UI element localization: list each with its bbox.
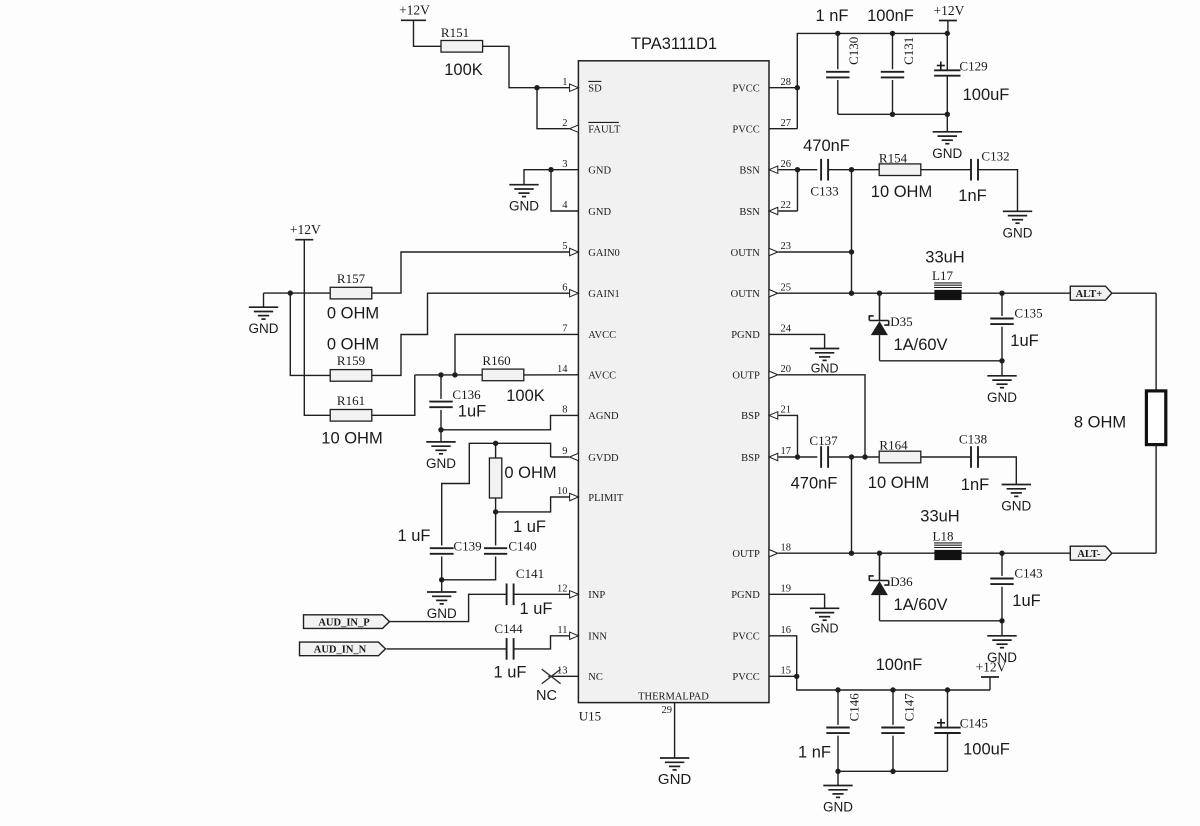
wire down to OUTP row bbox=[851, 457, 853, 553]
wire to ground symbol bbox=[524, 170, 551, 185]
resistor 8 OHM load bbox=[1146, 391, 1165, 445]
wire C130 top stem bbox=[837, 33, 839, 69]
svg-text:ALT+: ALT+ bbox=[1076, 289, 1103, 300]
resistor R159 bbox=[330, 370, 372, 382]
junction C146 top bbox=[835, 687, 840, 692]
ground (thermal pad) bbox=[660, 758, 689, 770]
op-amp U15 TPA3111D1 IC body bbox=[578, 61, 769, 703]
capacitor C146 bbox=[826, 728, 849, 734]
pin 8 AGND bbox=[562, 405, 619, 423]
svg-text:+12V: +12V bbox=[933, 3, 964, 18]
wire to gnd bbox=[946, 114, 948, 132]
flag AUD_IN_N bbox=[300, 642, 386, 656]
junction D35 bbox=[877, 291, 882, 296]
wire to pin 2 bbox=[537, 88, 570, 129]
pin 29 THERMALPAD stem bbox=[662, 703, 675, 758]
svg-text:33uH: 33uH bbox=[925, 249, 964, 267]
wire load to ALT- bbox=[1155, 445, 1157, 554]
svg-text:1 nF: 1 nF bbox=[798, 744, 831, 762]
junction D36 bbox=[877, 551, 882, 556]
wire C147 top stem bbox=[892, 690, 894, 725]
wire to pin 1 bbox=[537, 87, 570, 89]
wire +12V stub bbox=[947, 21, 949, 34]
svg-text:20: 20 bbox=[781, 364, 792, 375]
wire pin 28 bbox=[769, 87, 797, 89]
wire +12V stub bottom bbox=[989, 677, 991, 690]
wire pin 17 to C137 bbox=[778, 456, 817, 458]
svg-text:C138: C138 bbox=[959, 432, 987, 447]
svg-text:470nF: 470nF bbox=[803, 137, 850, 155]
svg-text:10 OHM: 10 OHM bbox=[868, 474, 929, 492]
pin 20 OUTP bbox=[732, 364, 791, 382]
capacitor C130 bbox=[826, 72, 849, 78]
wire pin 9 stub bbox=[551, 456, 570, 458]
capacitor C133 bbox=[821, 159, 828, 181]
junction C131 bottom bbox=[890, 112, 895, 117]
wire R160 to pin 14 bbox=[524, 374, 579, 376]
wire AUD_IN_P to C141 bbox=[390, 594, 507, 621]
svg-text:+12V: +12V bbox=[976, 659, 1007, 674]
svg-text:D35: D35 bbox=[890, 314, 912, 329]
wire pin 15 bbox=[769, 675, 797, 677]
svg-text:GND: GND bbox=[1003, 225, 1033, 240]
svg-text:GND: GND bbox=[249, 321, 279, 336]
wire 0-ohm top stem bbox=[495, 443, 497, 458]
svg-text:18: 18 bbox=[781, 542, 792, 553]
pin 16 PVCC bbox=[732, 625, 791, 643]
svg-text:1uF: 1uF bbox=[1010, 332, 1038, 350]
svg-text:R160: R160 bbox=[482, 353, 510, 368]
ground (pin 19) bbox=[810, 608, 839, 620]
svg-text:BSN: BSN bbox=[739, 207, 760, 218]
wire pin 18 OUTP output line bbox=[778, 552, 1156, 554]
svg-text:AUD_IN_P: AUD_IN_P bbox=[318, 617, 370, 628]
wire 0-ohm bottom stem bbox=[495, 498, 497, 512]
wire BSN vertical bbox=[797, 170, 799, 211]
ground (C135) bbox=[987, 376, 1016, 388]
wire C129 bottom stem bbox=[946, 76, 948, 115]
svg-text:PGND: PGND bbox=[731, 590, 760, 601]
svg-text:AVCC: AVCC bbox=[588, 330, 616, 341]
svg-text:GND: GND bbox=[823, 800, 853, 815]
svg-text:U15: U15 bbox=[579, 708, 601, 723]
junction pin 28 bbox=[795, 85, 800, 90]
resistor R157 bbox=[330, 287, 372, 299]
junction pin 15/16 bbox=[794, 674, 799, 679]
svg-text:GAIN1: GAIN1 bbox=[588, 289, 620, 300]
junction C133/R154/OUTN bbox=[849, 167, 854, 172]
junction pin20 branch bbox=[862, 454, 867, 459]
wire down to R159 bbox=[290, 293, 330, 375]
ground (pin 24) bbox=[810, 349, 839, 361]
svg-text:AUD_IN_N: AUD_IN_N bbox=[314, 645, 367, 656]
wire C145 bottom stem bbox=[947, 733, 949, 771]
pin 23 OUTN bbox=[731, 241, 791, 259]
svg-text:ALT-: ALT- bbox=[1077, 549, 1101, 560]
wire R159 to pin 6 GAIN1 bbox=[372, 293, 570, 375]
junction C143 bottom bbox=[999, 618, 1004, 623]
wire +12V to R151 bbox=[414, 20, 442, 46]
svg-text:C141: C141 bbox=[516, 566, 544, 581]
svg-text:AVCC: AVCC bbox=[588, 371, 616, 382]
svg-text:GND: GND bbox=[427, 606, 457, 621]
svg-text:R154: R154 bbox=[879, 151, 908, 166]
junction C147 top bbox=[890, 687, 895, 692]
svg-text:8 OHM: 8 OHM bbox=[1074, 414, 1126, 432]
junction C143 top bbox=[999, 551, 1004, 556]
svg-text:6: 6 bbox=[562, 282, 567, 293]
wire pin 13 NC stub bbox=[548, 675, 578, 677]
pin 9 GVDD bbox=[562, 446, 619, 464]
svg-text:1nF: 1nF bbox=[958, 187, 986, 205]
svg-text:BSP: BSP bbox=[741, 453, 760, 464]
wire ALT+ to load bbox=[1155, 293, 1157, 391]
svg-text:OUTP: OUTP bbox=[732, 549, 760, 560]
wire bottom gnd rail bbox=[838, 770, 948, 772]
svg-text:25: 25 bbox=[781, 282, 792, 293]
flag ALT- bbox=[1070, 546, 1112, 560]
+12V supply (PVCC bottom) bbox=[981, 676, 999, 678]
svg-text:17: 17 bbox=[781, 446, 792, 457]
capacitor C129 (polarized) bbox=[934, 70, 960, 75]
pin 21 BSP bbox=[741, 405, 791, 423]
svg-text:PVCC: PVCC bbox=[732, 632, 759, 643]
wire pin 26 to C133 bbox=[778, 169, 817, 171]
svg-text:21: 21 bbox=[781, 405, 792, 416]
svg-text:L17: L17 bbox=[932, 268, 953, 283]
svg-text:C129: C129 bbox=[959, 59, 987, 74]
svg-text:FAULT: FAULT bbox=[588, 125, 621, 136]
svg-text:+12V: +12V bbox=[399, 3, 430, 18]
wire +12V down to R161 bbox=[304, 240, 330, 416]
junction C136 top bbox=[438, 372, 443, 377]
resistor R154 bbox=[879, 164, 921, 176]
svg-text:BSN: BSN bbox=[739, 166, 760, 177]
junction pins 3/4 bbox=[548, 167, 553, 172]
pin 27 PVCC bbox=[732, 118, 791, 136]
svg-text:1A/60V: 1A/60V bbox=[893, 336, 947, 354]
svg-text:OUTP: OUTP bbox=[732, 371, 760, 382]
wire pin 24 PGND bbox=[769, 334, 825, 348]
wire R164 to C138 bbox=[921, 456, 971, 458]
ground (C143) bbox=[987, 636, 1016, 648]
wire R154 to C132 bbox=[921, 169, 971, 171]
svg-text:C137: C137 bbox=[809, 433, 838, 448]
svg-text:BSP: BSP bbox=[741, 411, 760, 422]
junction AGND node bbox=[438, 427, 443, 432]
wire to gnd bbox=[441, 580, 443, 592]
capacitor C145 (polarized) bbox=[934, 728, 960, 733]
wire C129 top stem bbox=[946, 33, 948, 70]
wire R157 to pin 5 GAIN0 bbox=[372, 252, 570, 293]
junction PLIMIT node bbox=[493, 509, 498, 514]
pin 10 PLIMIT bbox=[557, 486, 624, 504]
svg-text:8: 8 bbox=[562, 405, 567, 416]
pin 12 INP bbox=[557, 584, 605, 602]
svg-text:C145: C145 bbox=[960, 716, 988, 731]
wire C136 top stem bbox=[440, 375, 442, 399]
svg-text:9: 9 bbox=[562, 446, 567, 457]
wire C145 top stem bbox=[947, 690, 949, 728]
svg-text:470nF: 470nF bbox=[791, 475, 838, 493]
svg-text:PVCC: PVCC bbox=[732, 672, 759, 683]
junction OUTP/BSP vertical bbox=[849, 551, 854, 556]
junction BSP pins bbox=[795, 454, 800, 459]
pin 17 BSP bbox=[741, 446, 791, 464]
pin 26 BSN bbox=[739, 159, 791, 177]
svg-text:1 uF: 1 uF bbox=[519, 600, 552, 618]
junction pin 23 bbox=[849, 249, 854, 254]
+12V supply (R161) bbox=[295, 239, 313, 241]
svg-text:100uF: 100uF bbox=[963, 86, 1010, 104]
wire gnd stub bbox=[263, 293, 265, 307]
svg-text:10 OHM: 10 OHM bbox=[871, 183, 932, 201]
svg-text:100K: 100K bbox=[506, 387, 545, 405]
inductor L17 bbox=[934, 283, 962, 288]
wire C143 top stem bbox=[1001, 553, 1003, 576]
ground (PVCC bottom) bbox=[823, 786, 852, 798]
svg-text:GND: GND bbox=[588, 207, 611, 218]
junction BSP/OUTP down bbox=[849, 454, 854, 459]
svg-text:GND: GND bbox=[811, 622, 839, 636]
svg-text:0 OHM: 0 OHM bbox=[327, 305, 379, 323]
svg-text:C133: C133 bbox=[810, 184, 838, 199]
wire pin 16 down bbox=[769, 636, 797, 677]
svg-text:C132: C132 bbox=[981, 149, 1009, 164]
capacitor C136 bbox=[429, 402, 452, 408]
wire C131 top stem bbox=[892, 33, 894, 69]
junction C129 bottom bbox=[945, 112, 950, 117]
junction pin7 branch bbox=[452, 372, 457, 377]
flag ALT+ bbox=[1070, 286, 1112, 300]
diode D35 bbox=[869, 293, 888, 325]
svg-text:INP: INP bbox=[588, 590, 605, 601]
svg-text:15: 15 bbox=[781, 666, 792, 677]
svg-text:GND: GND bbox=[987, 390, 1017, 405]
pin 11 INN bbox=[557, 625, 607, 643]
capacitor C132 bbox=[971, 159, 978, 181]
pin 13 NC bbox=[557, 666, 603, 684]
svg-text:1 uF: 1 uF bbox=[397, 527, 430, 545]
wire pin 4 bbox=[551, 170, 578, 211]
resistor R161 bbox=[330, 410, 372, 422]
wire to pin 7 AVCC bbox=[455, 334, 578, 375]
svg-text:+12V: +12V bbox=[290, 222, 321, 237]
resistor 0 OHM (vertical) bbox=[489, 458, 501, 498]
wire D35 anode to gnd node bbox=[880, 360, 1003, 362]
junction BSN pins bbox=[795, 167, 800, 172]
junction C135 top bbox=[999, 291, 1004, 296]
flag AUD_IN_P bbox=[304, 615, 390, 629]
svg-text:28: 28 bbox=[781, 77, 792, 88]
wire pin 23 OUTN bbox=[778, 251, 851, 253]
wire AVCC net horizontal bbox=[415, 374, 482, 376]
svg-text:C130: C130 bbox=[846, 37, 861, 65]
wire C133 to node bbox=[828, 169, 851, 171]
wire C140 bottom to node bbox=[442, 557, 496, 580]
svg-text:C135: C135 bbox=[1014, 306, 1042, 321]
wire R161 to AVCC net bbox=[372, 375, 415, 415]
capacitor C147 bbox=[881, 728, 904, 734]
pin 5 GAIN0 bbox=[562, 241, 620, 259]
ground (pins 3/4) bbox=[509, 185, 538, 197]
svg-text:19: 19 bbox=[781, 584, 792, 595]
wire C146 top stem bbox=[837, 690, 839, 725]
wire C131 bottom stem bbox=[892, 80, 894, 114]
wire pin 19 PGND bbox=[769, 594, 825, 608]
svg-text:PVCC: PVCC bbox=[732, 84, 759, 95]
wire C140 top stem bbox=[495, 512, 497, 546]
svg-text:22: 22 bbox=[781, 200, 792, 211]
wire PVCC bottom rail bbox=[797, 676, 990, 690]
wire to pin 10 PLIMIT bbox=[496, 497, 570, 512]
svg-text:33uH: 33uH bbox=[920, 508, 959, 526]
wire pin 27 bbox=[769, 128, 797, 130]
wire C139 bottom stem bbox=[441, 557, 443, 580]
wire C135 bottom stem bbox=[1001, 327, 1003, 361]
svg-text:GND: GND bbox=[932, 146, 962, 161]
capacitor C135 bbox=[990, 319, 1013, 325]
wire AUD_IN_N to C144 bbox=[387, 648, 507, 650]
pin 4 GND bbox=[562, 200, 611, 218]
svg-text:PLIMIT: PLIMIT bbox=[588, 493, 624, 504]
svg-text:GND: GND bbox=[426, 456, 456, 471]
svg-text:C131: C131 bbox=[901, 37, 916, 65]
svg-text:C146: C146 bbox=[846, 693, 861, 722]
svg-text:R159: R159 bbox=[337, 353, 365, 368]
svg-text:OUTN: OUTN bbox=[731, 248, 761, 259]
junction C135 bottom bbox=[999, 358, 1004, 363]
wire C132 to gnd bbox=[978, 170, 1018, 212]
wire pin 22 bbox=[778, 210, 797, 212]
ground (C139/C140) bbox=[427, 592, 456, 604]
svg-text:24: 24 bbox=[781, 324, 792, 335]
inductor L18 bbox=[934, 543, 962, 548]
svg-text:23: 23 bbox=[781, 241, 792, 252]
wire C143 bottom stem bbox=[1001, 587, 1003, 621]
wire pin 20 OUTP down bbox=[778, 375, 865, 457]
pin 25 OUTN bbox=[731, 282, 791, 300]
svg-text:1A/60V: 1A/60V bbox=[893, 596, 947, 614]
junction C146 bottom bbox=[835, 769, 840, 774]
svg-text:27: 27 bbox=[781, 118, 792, 129]
diode D36 bbox=[869, 553, 888, 585]
junction OUTN/BSN vertical bbox=[849, 291, 854, 296]
svg-text:C139: C139 bbox=[453, 539, 481, 554]
junction C145 top bbox=[945, 687, 950, 692]
wire C135 top stem bbox=[1001, 293, 1003, 316]
svg-text:GND: GND bbox=[509, 199, 539, 214]
wire pin 25 OUTN output line bbox=[778, 292, 1156, 294]
svg-text:THERMALPAD: THERMALPAD bbox=[638, 692, 709, 703]
svg-text:GND: GND bbox=[588, 166, 611, 177]
svg-text:1uF: 1uF bbox=[1012, 592, 1040, 610]
svg-text:1 uF: 1 uF bbox=[493, 664, 526, 682]
svg-text:3: 3 bbox=[562, 159, 567, 170]
wire to gnd bbox=[1001, 361, 1003, 376]
wire C147 bottom stem bbox=[892, 736, 894, 772]
svg-text:1: 1 bbox=[562, 77, 567, 88]
wire R151 to SD node bbox=[483, 46, 537, 87]
svg-text:16: 16 bbox=[781, 625, 792, 636]
pin 3 GND bbox=[562, 159, 611, 177]
svg-text:GND: GND bbox=[811, 362, 839, 376]
junction node SD/FAULT bbox=[534, 85, 539, 90]
wire C136 bottom stem bbox=[440, 410, 442, 430]
svg-text:D36: D36 bbox=[890, 574, 913, 589]
svg-text:14: 14 bbox=[557, 364, 568, 375]
resistor R160 bbox=[482, 369, 524, 381]
wire to gnd bbox=[440, 430, 442, 442]
no-connect X on pin 13 bbox=[542, 669, 561, 684]
svg-text:0 OHM: 0 OHM bbox=[327, 336, 379, 354]
pin 1 SD bbox=[562, 77, 602, 95]
svg-text:NC: NC bbox=[588, 672, 603, 683]
svg-text:C143: C143 bbox=[1014, 566, 1042, 581]
svg-text:29: 29 bbox=[662, 705, 673, 716]
pin 2 FAULT bbox=[562, 118, 621, 136]
pin 14 AVCC bbox=[557, 364, 616, 382]
ground (C138) bbox=[1002, 485, 1031, 497]
pin 18 OUTP bbox=[732, 542, 791, 560]
+12V supply (R151) bbox=[401, 19, 426, 21]
svg-text:R157: R157 bbox=[337, 271, 366, 286]
wire PVCC top rail bbox=[797, 33, 947, 128]
junction R157/R159 gnd node bbox=[288, 290, 293, 295]
svg-text:1nF: 1nF bbox=[961, 476, 989, 494]
wire C137 to R164 bbox=[828, 456, 879, 458]
junction C147 bottom bbox=[890, 769, 895, 774]
svg-text:4: 4 bbox=[562, 200, 568, 211]
svg-text:OUTN: OUTN bbox=[731, 289, 761, 300]
ground (C136/AGND) bbox=[426, 442, 455, 454]
wire to gnd bbox=[1001, 621, 1003, 636]
wire C146 bottom stem bbox=[837, 736, 839, 772]
capacitor C140 bbox=[484, 548, 507, 554]
capacitor C137 bbox=[821, 446, 828, 468]
svg-text:PGND: PGND bbox=[731, 330, 760, 341]
ground (PVCC top) bbox=[933, 132, 962, 144]
svg-text:1 uF: 1 uF bbox=[513, 518, 546, 536]
wire gnd to R157 bbox=[264, 292, 331, 294]
ground (gain divider) bbox=[249, 307, 278, 319]
wire C138 to gnd bbox=[978, 457, 1016, 485]
capacitor C139 bbox=[430, 548, 454, 554]
svg-text:2: 2 bbox=[562, 118, 567, 129]
svg-text:100nF: 100nF bbox=[867, 7, 914, 25]
pin 28 PVCC bbox=[732, 77, 791, 95]
wire D36 anode to gnd node bbox=[880, 620, 1003, 622]
pin 24 PGND bbox=[731, 324, 792, 342]
pin 15 PVCC bbox=[732, 666, 791, 684]
svg-text:TPA3111D1: TPA3111D1 bbox=[631, 35, 717, 53]
svg-text:26: 26 bbox=[781, 159, 792, 170]
svg-text:5: 5 bbox=[562, 241, 567, 252]
svg-text:GND: GND bbox=[658, 771, 692, 788]
svg-text:NC: NC bbox=[536, 688, 557, 704]
svg-text:R164: R164 bbox=[879, 438, 908, 453]
svg-text:C147: C147 bbox=[901, 693, 916, 722]
svg-text:C136: C136 bbox=[452, 387, 481, 402]
wire to C139 bbox=[442, 443, 496, 545]
pin 7 AVCC bbox=[562, 324, 616, 342]
svg-text:11: 11 bbox=[557, 625, 567, 636]
wire C141 to pin 12 INP bbox=[514, 593, 570, 595]
resistor R164 bbox=[879, 451, 921, 463]
junction C130 top bbox=[835, 31, 840, 36]
svg-text:10: 10 bbox=[557, 486, 568, 497]
wire pin 21 BSP down bbox=[778, 415, 797, 457]
